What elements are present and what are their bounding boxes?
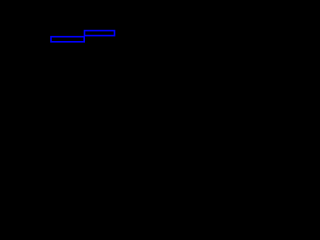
upper-right box outline xyxy=(85,31,115,36)
background xyxy=(0,0,200,76)
lower-left box outline xyxy=(51,37,84,42)
